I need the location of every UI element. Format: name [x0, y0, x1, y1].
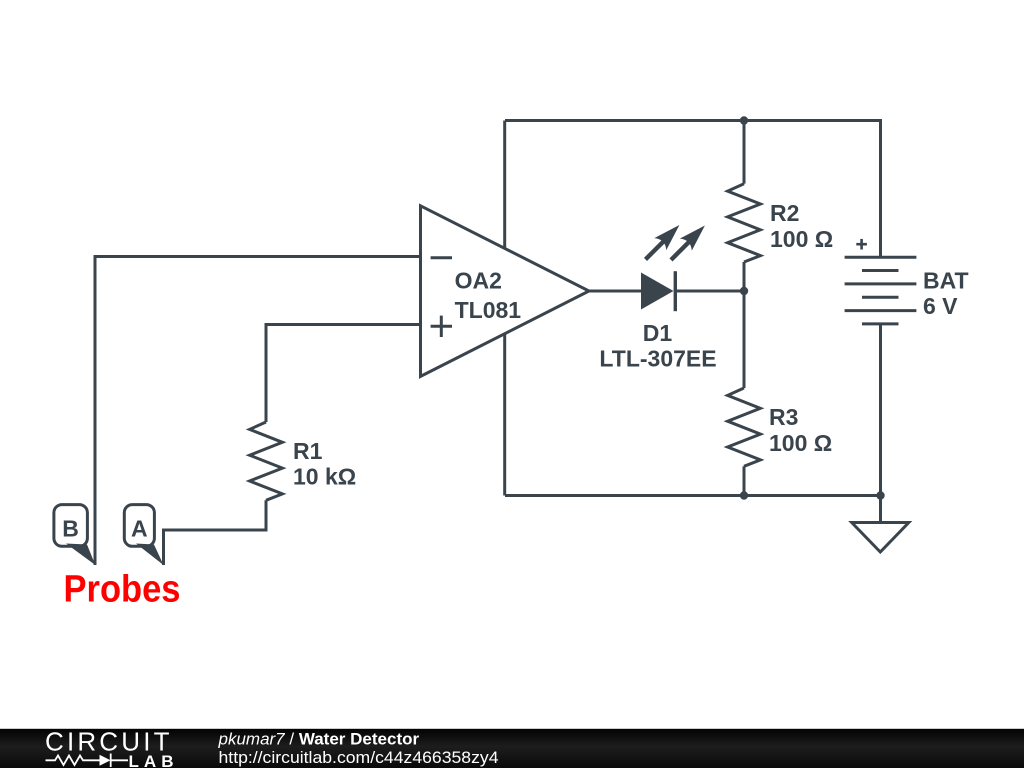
probe B — [54, 505, 95, 565]
wire R2 bottom lead — [743, 262, 746, 291]
svg-text:100 Ω: 100 Ω — [770, 226, 833, 252]
wire op-amp power rail vertical — [503, 121, 506, 496]
node LED output / R2 / R3 junction — [740, 287, 748, 295]
svg-text:BAT: BAT — [923, 268, 969, 294]
svg-text:http://circuitlab.com/c44z4663: http://circuitlab.com/c44z466358zy4 — [219, 748, 499, 767]
svg-text:LAB: LAB — [129, 752, 178, 768]
svg-text:B: B — [62, 516, 79, 542]
LED D1 LTL-307EE — [599, 225, 716, 372]
wire op-amp output to LED — [589, 290, 641, 293]
battery BAT 6V — [845, 239, 969, 324]
node R3 / bottom rail junction — [740, 491, 748, 499]
wire LED cathode to node — [675, 290, 744, 293]
svg-text:pkumar7 / Water Detector: pkumar7 / Water Detector — [218, 730, 420, 749]
svg-text:LTL-307EE: LTL-307EE — [599, 346, 716, 372]
svg-text:R1: R1 — [293, 438, 323, 464]
ground — [852, 523, 909, 553]
wire bottom rail — [505, 494, 881, 497]
svg-text:100 Ω: 100 Ω — [769, 430, 832, 456]
svg-text:10 kΩ: 10 kΩ — [293, 464, 356, 490]
resistor R2 100 Ohm — [728, 184, 834, 262]
svg-text:6 V: 6 V — [923, 293, 958, 319]
wire non-inverting input from R1 — [266, 325, 421, 423]
probe A — [124, 505, 163, 565]
wire R3 bottom lead — [743, 466, 746, 495]
wire inverting input from probe B — [95, 257, 421, 566]
footer bar — [0, 729, 1024, 768]
svg-text:R2: R2 — [770, 200, 799, 226]
wire R3 top lead — [743, 291, 746, 388]
svg-text:D1: D1 — [643, 320, 673, 346]
wire ground lead — [879, 496, 882, 523]
svg-text:OA2: OA2 — [455, 268, 502, 294]
wire top rail — [505, 119, 881, 122]
svg-text:A: A — [131, 516, 148, 542]
wire battery top lead — [879, 119, 882, 257]
footer logo resistor-diode line — [46, 754, 129, 768]
svg-text:R3: R3 — [769, 404, 798, 430]
node ground junction — [876, 491, 884, 499]
footer logo diode symbol — [100, 755, 111, 766]
resistor R1 10 kOhm — [250, 422, 357, 500]
op-amp U1 OA2 TL081 — [421, 206, 590, 377]
wire battery bottom lead — [879, 324, 882, 496]
svg-text:TL081: TL081 — [455, 297, 522, 323]
wire R1 bottom to probe A — [164, 500, 267, 565]
svg-text:Probes: Probes — [64, 569, 181, 611]
resistor R3 100 Ohm — [728, 388, 833, 466]
node top rail / R2 junction — [740, 116, 748, 124]
wire R2 top lead — [743, 121, 746, 184]
